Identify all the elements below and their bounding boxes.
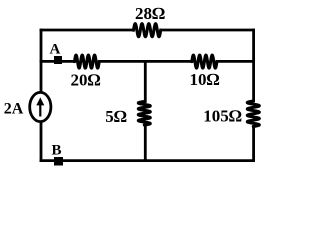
svg-text:105Ω: 105Ω [203,106,242,125]
svg-text:5Ω: 5Ω [105,107,127,126]
svg-text:10Ω: 10Ω [189,70,219,89]
svg-text:A: A [50,42,61,58]
svg-text:B: B [52,143,62,159]
svg-text:28Ω: 28Ω [135,4,165,23]
svg-text:20Ω: 20Ω [70,71,100,90]
svg-text:2A: 2A [4,101,24,118]
